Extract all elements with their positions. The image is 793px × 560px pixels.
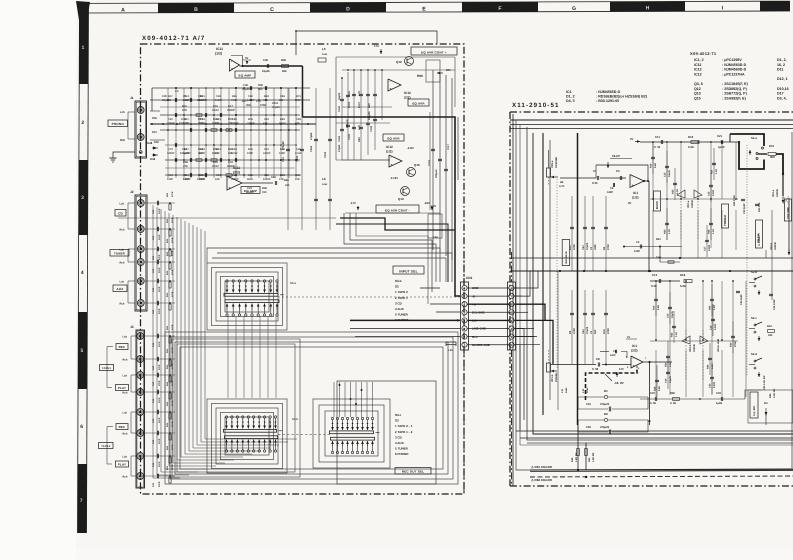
label PLAY tape1 [116,385,129,391]
svg-text:C40: C40 [168,118,173,121]
svg-text:3300P: 3300P [227,109,235,112]
svg-text:R44: R44 [166,401,169,406]
svg-text:Q3, 6: Q3, 6 [694,82,703,86]
svg-text:-11.9V: -11.9V [390,176,398,180]
board X09-4012-71 border [141,44,465,494]
svg-text:S2-d: S2-d [751,352,757,356]
svg-text:C52: C52 [248,95,253,98]
svg-text:R77: R77 [184,148,189,151]
svg-text:-17V: -17V [350,201,356,205]
switch matrix S3-b [225,416,227,418]
-16.9V heavy dashed [586,367,638,401]
svg-text:220μ16: 220μ16 [435,169,438,178]
svg-text:VR2-a: VR2-a [687,200,690,208]
svg-text:R22: R22 [672,189,675,194]
svg-text:S3-c: S3-c [395,413,402,417]
svg-text:R73: R73 [296,95,301,98]
svg-text:REC: REC [119,425,126,429]
svg-text:470K: 470K [171,400,174,406]
svg-text:Q13: Q13 [694,92,701,96]
top ruler bar A-I [82,1,790,3]
svg-text:R14: R14 [653,305,656,310]
svg-text:H: H [646,6,650,12]
R59 R64 vertical [577,420,579,470]
svg-text:C41: C41 [152,439,155,444]
svg-text:S2-a: S2-a [751,136,757,140]
svg-text:100KB: 100KB [776,189,779,197]
svg-text:R75: R75 [248,118,253,121]
label CD [115,210,126,217]
svg-text:X09-4012-71: X09-4012-71 [690,51,717,56]
board X11-2910-51 border [510,111,793,113]
label BASS [654,191,661,211]
svg-text:EQ AMP: EQ AMP [239,73,252,77]
svg-text:16μ35: 16μ35 [668,170,671,177]
svg-text:0. 66: 0. 66 [670,402,676,405]
svg-text:AUX: AUX [116,287,124,291]
svg-text:180P: 180P [607,191,613,194]
routing loops around S3-c [313,399,390,468]
17V top rail [296,31,437,44]
treble caps resistors [652,142,654,174]
svg-text:R44: R44 [166,348,169,353]
svg-text:+: + [390,87,392,91]
svg-text:261K: 261K [183,99,189,102]
svg-text:100P: 100P [199,122,205,125]
svg-text:IC11: IC11 [216,47,223,51]
svg-text:C21: C21 [717,134,723,138]
svg-text:R55: R55 [152,117,157,120]
svg-text:C17: C17 [228,105,233,108]
connector CN1 right [508,282,516,350]
svg-text:3300P: 3300P [231,178,239,181]
svg-text:R45: R45 [232,95,237,98]
connector J3 [136,330,145,488]
svg-text:0V: 0V [627,336,630,339]
svg-text:R69: R69 [258,84,263,87]
svg-text:PHONO: PHONO [112,122,125,126]
tone network lower [655,284,657,316]
svg-text:47K: 47K [183,165,188,168]
svg-text:: RD16EB(B2)(or HZS16N) B2): : RD16EB(B2)(or HZS16N) B2) [596,95,648,99]
svg-text:R50: R50 [154,141,159,144]
svg-text:470K: 470K [171,291,174,297]
svg-text:0. 33: 0. 33 [654,145,661,149]
svg-text:PLAY: PLAY [118,462,126,466]
svg-text:C49: C49 [243,84,248,87]
svg-text:D2: D2 [604,412,608,416]
svg-text:470K: 470K [573,244,576,250]
svg-text:IC12: IC12 [694,72,702,76]
svg-text:Rch: Rch [123,433,128,436]
svg-text:C98: C98 [232,148,237,151]
svg-text:Lch: Lch [120,249,125,252]
svg-text:C20: C20 [709,383,712,388]
speaker line solid [530,469,793,470]
svg-text:47K: 47K [295,122,300,125]
CN fanout corners [515,271,539,288]
svg-text:22μ35: 22μ35 [246,191,254,194]
svg-text:261K: 261K [199,178,205,181]
IC1b input network [571,290,573,364]
svg-text:2 TAPE 1: 2 TAPE 1 [395,296,408,300]
svg-text:REC: REC [119,345,126,349]
svg-text:17V: 17V [374,44,379,48]
svg-text:0.022: 0.022 [712,189,715,196]
svg-text:C49: C49 [263,59,268,62]
svg-text:100KB: 100KB [691,200,694,208]
svg-text:275P: 275P [260,104,266,107]
main bold vertical [577,133,579,425]
routing loops around S3-a [207,263,287,330]
svg-text:4 AUX: 4 AUX [395,441,404,445]
svg-text:R15: R15 [248,148,253,151]
svg-text:R47: R47 [184,118,189,121]
svg-text:C62: C62 [296,174,301,177]
svg-text:470μ25: 470μ25 [600,426,610,429]
label TAPE2 [99,443,114,449]
svg-text:C22: C22 [282,157,285,162]
svg-text:470K: 470K [573,328,576,334]
svg-text:R103: R103 [348,101,351,108]
svg-text:R35 3.3K 2W: R35 3.3K 2W [763,375,766,390]
svg-text:470K: 470K [171,464,174,470]
svg-text:R13: R13 [184,174,189,177]
svg-text:261K: 261K [247,178,253,181]
label REC tape1 [116,344,128,350]
svg-text:16, 2: 16, 2 [777,63,785,67]
svg-text:22μ35: 22μ35 [262,70,270,73]
svg-text:Lch: Lch [123,456,128,459]
svg-text:VOLUME: VOLUME [786,207,790,219]
svg-text:: 2SC1845(F, E): : 2SC1845(F, E) [722,82,749,86]
svg-text:100P: 100P [158,234,161,240]
svg-text:R69: R69 [281,59,286,62]
svg-text:C68: C68 [232,118,237,121]
svg-text:470K: 470K [171,444,174,450]
svg-text:C26 100P: C26 100P [773,299,776,310]
svg-text:C21: C21 [256,100,261,103]
svg-text:C41: C41 [152,255,155,260]
svg-text:C41: C41 [152,209,155,214]
CN left approach wires [420,287,440,289]
svg-text:Lch: Lch [120,281,125,284]
label S DIRECT [756,220,763,248]
svg-text:0.012: 0.012 [212,165,219,168]
svg-text:0.012: 0.012 [295,152,302,155]
svg-text:C101: C101 [296,155,299,162]
svg-text:47K: 47K [279,178,284,181]
svg-text:100P: 100P [158,208,161,214]
svg-text:100P: 100P [610,354,616,357]
svg-text:: 2SA992(F, E): : 2SA992(F, E) [722,96,747,100]
svg-text:C108: C108 [370,125,373,132]
svg-text:⚠ R61 10Ω 2W: ⚠ R61 10Ω 2W [531,465,552,469]
svg-text:R26: R26 [707,364,710,369]
op-amp IC12 (2/2) [388,79,401,91]
svg-text:IC12: IC12 [694,68,702,72]
svg-text:R25: R25 [709,305,712,310]
svg-text:R44: R44 [166,270,169,275]
svg-text:R24: R24 [665,362,668,367]
svg-text:100P: 100P [199,152,205,155]
svg-text:Q13: Q13 [398,197,404,201]
svg-text:1.1K: 1.1K [711,364,714,369]
svg-text:1 TAPE 2: 1 TAPE 2 [395,290,408,294]
svg-text:100P: 100P [158,380,161,386]
svg-text:C41: C41 [152,365,155,370]
svg-text:390: 390 [167,99,172,102]
svg-text:470K: 470K [171,250,174,256]
svg-text:220μ25: 220μ25 [368,111,371,120]
svg-text:1800P: 1800P [167,122,175,125]
svg-text:X11-2910-51: X11-2910-51 [512,102,560,109]
svg-text:5.6K: 5.6K [658,386,661,391]
svg-text:: B30-1291-05: : B30-1291-05 [596,99,619,103]
label TREBLE [722,204,729,228]
svg-text:EQ AVR CONT +: EQ AVR CONT + [421,50,447,54]
svg-text:L12: L12 [582,388,585,393]
phono EQ components [174,98,176,102]
svg-text:IC1: IC1 [566,90,572,94]
switch matrix S3-c [331,417,333,419]
svg-text:R23: R23 [656,238,661,241]
svg-text:S3-b: S3-b [395,279,402,283]
svg-text:R98: R98 [358,137,361,142]
svg-text:D: D [346,7,350,13]
svg-text:3300P: 3300P [183,152,191,155]
svg-text:Rch: Rch [120,229,125,232]
svg-text:100P: 100P [167,178,173,181]
svg-text:Lch: Lch [120,111,125,114]
svg-text:R68: R68 [284,179,289,182]
svg-text:1.1K: 1.1K [668,229,671,234]
svg-text:180P: 180P [594,244,597,250]
svg-text:C24 560P: C24 560P [740,294,743,305]
svg-text:47μ25: 47μ25 [586,326,589,334]
svg-text:1.1K: 1.1K [712,229,715,234]
label REC OUT SEL [395,468,431,475]
svg-text:0V: 0V [628,201,632,205]
svg-text:EQ AVR: EQ AVR [387,136,400,140]
svg-text:(1/2): (1/2) [386,150,393,154]
svg-text:16μ25: 16μ25 [338,92,341,100]
svg-text:+: + [231,67,233,71]
svg-text:4 AUX: 4 AUX [395,307,404,311]
label PLAY tape2 [116,461,129,467]
right edge verticals [791,132,793,468]
svg-text:4.7K: 4.7K [358,91,361,96]
svg-text:47μ63: 47μ63 [338,144,341,152]
svg-text:D49: D49 [150,157,156,161]
svg-text:Lch: Lch [123,375,128,378]
svg-text:10μ35: 10μ35 [671,311,674,318]
svg-text:C103: C103 [348,133,351,140]
svg-text:A: A [121,7,125,13]
svg-text:Rch: Rch [123,392,128,395]
svg-text:D12, 1: D12, 1 [777,77,788,81]
svg-text:VR1-a: VR1-a [551,160,554,168]
svg-text:C23: C23 [271,176,276,179]
svg-text:C102: C102 [324,151,327,158]
label AUX [113,285,127,292]
label EQ AVR CONT - [376,205,419,213]
svg-text:1.1K: 1.1K [669,362,672,367]
svg-text:1.1K: 1.1K [675,332,678,337]
connector J1 [135,101,147,158]
label VOLUME [785,199,792,221]
op-amp IC11 (1/2) [230,59,240,71]
feedback wire IC1a [596,165,648,181]
svg-text:+: + [391,163,393,167]
svg-text:CN1: CN1 [466,276,473,280]
svg-text:R50: R50 [670,392,675,395]
svg-text:⚠ R62 10Ω 2W: ⚠ R62 10Ω 2W [531,478,552,482]
svg-text:R16: R16 [650,163,653,168]
svg-text:10μ25: 10μ25 [669,376,672,383]
J3 channel brackets [131,335,136,337]
svg-text:C41: C41 [152,235,155,240]
volume gang dotted [556,179,558,368]
svg-text:L6: L6 [322,177,326,181]
svg-text:0.012: 0.012 [231,152,238,155]
svg-text:C19: C19 [708,191,711,196]
svg-text:Rch: Rch [123,359,128,362]
svg-text:5.6K: 5.6K [657,305,660,310]
svg-text:100P: 100P [158,438,161,444]
svg-text:0.012: 0.012 [183,122,190,125]
label SQ IND [750,392,758,418]
top-left corner mark [76,1,90,20]
svg-text:D4: D4 [764,401,768,405]
svg-text:2 TAPE 1→2: 2 TAPE 1→2 [395,430,413,434]
CN1 fanout wires [515,287,520,289]
label EQ AMP 2 [241,187,260,194]
label EQ AVR CONT + [411,47,457,55]
svg-text:C106: C106 [338,135,341,142]
svg-text:C51: C51 [586,403,591,406]
svg-text:470K: 470K [607,328,610,334]
svg-text:C70: C70 [168,148,173,151]
svg-text:C64: C64 [582,329,585,334]
svg-text:C38: C38 [216,95,221,98]
svg-text:1mH: 1mH [565,388,568,393]
svg-text:1mH: 1mH [322,53,327,56]
svg-text:470μ25: 470μ25 [600,403,610,406]
svg-text:: 2SB772(Q, P): : 2SB772(Q, P) [722,92,748,96]
bottom rails [516,430,793,432]
svg-text:3300P: 3300P [231,122,239,125]
svg-text:VR1-b: VR1-b [551,374,554,382]
svg-text:IC12: IC12 [404,91,411,95]
svg-text:L5: L5 [322,47,326,51]
svg-text:C118: C118 [428,160,431,166]
svg-text:R91: R91 [216,148,221,151]
svg-text:C45: C45 [433,236,438,239]
svg-text:C41: C41 [152,268,155,273]
svg-text:R17: R17 [168,95,173,98]
op-amp IC12 (1/2) [389,155,402,167]
svg-text:R44: R44 [166,465,169,470]
svg-text:CD: CD [118,211,123,215]
svg-text:TAPE1: TAPE1 [102,367,112,370]
svg-text:100P: 100P [158,341,161,347]
svg-text:0.022: 0.022 [714,323,717,330]
svg-text:47μ63: 47μ63 [272,106,280,109]
border through CN1 [463,252,465,282]
svg-text:R24: R24 [664,229,667,234]
svg-text:39K: 39K [246,104,251,107]
svg-text:(2/2): (2/2) [631,349,638,353]
svg-text:S3: S3 [395,419,399,423]
svg-text:R22: R22 [671,332,674,337]
EQ AVR vertical components [341,78,343,160]
svg-text:5 TUNER: 5 TUNER [395,313,409,317]
svg-text:L11: L11 [561,388,564,393]
connector J2 [135,195,147,311]
svg-text:S2-c: S2-c [751,316,757,320]
switch matrix S3-a [226,280,228,282]
svg-text:BALANCE: BALANCE [565,251,568,264]
svg-text:3300P: 3300P [263,152,271,155]
svg-text:R61: R61 [216,118,221,121]
transistor Q13 [401,187,410,196]
svg-text:G: G [572,6,576,12]
svg-text:C22: C22 [264,148,269,151]
svg-text:IC1: IC1 [632,344,637,348]
svg-text:1800P: 1800P [263,178,271,181]
tone pot VR2-a [650,198,738,200]
svg-text:R59: R59 [571,457,574,462]
svg-text:1mH: 1mH [586,388,589,393]
svg-text:0.012: 0.012 [279,122,286,125]
transistor Q15 [407,168,416,177]
svg-text:D17: D17 [777,92,784,96]
op-amp IC1 (1/2) [630,175,644,188]
svg-text:C41: C41 [152,482,155,487]
routing loops outer left [165,332,458,484]
svg-text:100P: 100P [158,417,161,423]
svg-text:100P: 100P [158,308,161,314]
svg-text:0V: 0V [630,138,633,141]
pot VR1-b [547,363,551,372]
svg-text:Q15: Q15 [414,163,420,167]
svg-text:EQ AVR: EQ AVR [412,101,425,105]
svg-text:Lch: Lch [123,336,128,339]
jack RC networks [145,202,175,204]
svg-text:C17: C17 [704,246,707,251]
main vertical rails [542,133,544,415]
tone pot VR2-b [650,340,738,342]
svg-text:C41: C41 [152,418,155,423]
svg-text:5.6K: 5.6K [654,163,657,168]
svg-text:R31: R31 [200,95,205,98]
phono EQ wire grid [150,99,310,101]
svg-text:1μ50: 1μ50 [718,145,725,149]
svg-text:(1/2): (1/2) [632,196,639,200]
svg-text:: NJM4560D-D: : NJM4560D-D [722,63,747,67]
svg-text:0. 90: 0. 90 [650,402,656,405]
svg-text:R58: R58 [183,161,188,164]
svg-text:EQ AVR CONT -: EQ AVR CONT - [385,208,410,212]
svg-text:47K: 47K [263,122,268,125]
svg-text:Rch: Rch [120,139,125,142]
svg-text:C48: C48 [264,174,269,177]
C9 100P cluster [624,246,682,248]
svg-text:3300P: 3300P [247,122,255,125]
svg-text:-2.8V: -2.8V [407,146,414,150]
svg-text:C84: C84 [200,148,205,151]
